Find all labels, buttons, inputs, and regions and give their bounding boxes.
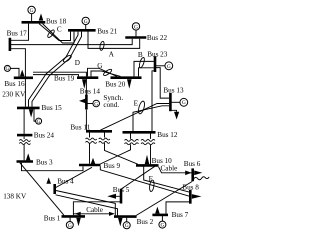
generator lead bus 1 (69, 218, 71, 222)
generator G at bus 21 (82, 17, 89, 24)
load arrow bus 9 (91, 158, 96, 164)
bus 6 bar (191, 168, 194, 181)
load arrow bus 10 (145, 155, 150, 165)
svg-text:G: G (94, 101, 98, 107)
wire 20-23 circuit 1 (134, 61, 154, 76)
wire 11-14 (85, 110, 87, 130)
load arrow bus 3 (26, 153, 31, 160)
svg-text:Bus 17: Bus 17 (7, 29, 28, 37)
svg-text:A: A (109, 51, 115, 59)
svg-text:F: F (149, 175, 153, 183)
bus 11 bar (86, 130, 112, 133)
svg-text:Bus 11: Bus 11 (70, 124, 90, 132)
generator lead bus 21 (85, 24, 87, 29)
generator lead bus 15 (34, 109, 36, 121)
wire 9-11 transformer lead lower (89, 143, 91, 164)
load arrow bus 19 (82, 79, 87, 89)
wire 12-23 (152, 71, 155, 131)
bus 12 bar (123, 131, 156, 134)
wire 8-10 (144, 166, 190, 192)
wire 1-3 (20, 163, 64, 216)
generator G at bus 23 (165, 62, 173, 70)
wire 1-5 (73, 202, 120, 215)
generator G at bus 2 (123, 222, 130, 229)
bus 3 bar (17, 160, 34, 163)
wire 15-21 circuit 2 (32, 32, 82, 107)
svg-text:Bus 22: Bus 22 (147, 34, 168, 42)
bus 14 bar (85, 95, 88, 110)
svg-text:G: G (182, 100, 186, 106)
svg-text:G: G (30, 8, 34, 14)
wire 9-11 transformer lead upper (89, 133, 91, 138)
svg-text:cond.: cond. (103, 101, 119, 109)
bus 2 bar (114, 215, 137, 218)
generator lead bus 2 (126, 218, 128, 222)
wire 5-10 (121, 166, 155, 189)
wire 10-12 transformer lead lower (150, 144, 152, 164)
transformer 10-12 winding (141, 139, 155, 141)
generator G at bus 22 (132, 23, 139, 30)
load arrow bus 15 (29, 109, 34, 117)
svg-text:Bus 23: Bus 23 (147, 50, 168, 58)
bus 18 bar (22, 21, 46, 24)
load arrow bus 20 (127, 79, 132, 89)
corridor marker ellipse F (149, 180, 155, 192)
corridor marker ellipse E (137, 100, 145, 114)
load arrow bus 8 (192, 194, 202, 199)
generator lead bus 16 (10, 68, 19, 76)
wire 10-11 transformer lead lower diagonal (105, 143, 138, 164)
load arrow bus 16 (20, 70, 25, 77)
svg-text:G: G (134, 24, 138, 30)
svg-text:Bus 15: Bus 15 (42, 104, 63, 112)
synchronous condenser G at bus 14 (93, 100, 100, 107)
svg-text:G: G (97, 62, 102, 70)
cable 1-2 right arrowhead (109, 212, 115, 216)
reactor squiggle at bus 6 (194, 177, 210, 180)
wire bus4-bus2 second segment (56, 195, 118, 216)
corridor marker ellipse C (47, 29, 56, 38)
bus 4 bar (53, 184, 56, 194)
load arrow bus 13 (174, 112, 179, 120)
load arrow bus 4 (46, 177, 51, 183)
wire 2-4 (56, 191, 116, 216)
wire 18-21 circuit 1 (39, 24, 71, 41)
wire 19-20 circuit 1 (88, 68, 118, 76)
load arrow bus 2 (118, 218, 123, 227)
wire 7-8 (166, 202, 190, 214)
wire 13-23 (155, 68, 169, 99)
svg-text:Bus 18: Bus 18 (46, 18, 67, 26)
bus 5 bar (120, 189, 123, 204)
wire 16-19 (33, 75, 79, 77)
generator lead synch cond bus 14 (86, 103, 93, 105)
svg-text:Bus 12: Bus 12 (157, 131, 178, 139)
transformer 10-11 winding (99, 138, 110, 140)
generator lead bus 22 (135, 30, 137, 37)
corridor marker ellipse A (99, 41, 105, 51)
generator G at bus 13 (180, 98, 188, 106)
bus 20 bar (111, 76, 142, 79)
transformer 9-11 winding (86, 138, 97, 140)
bus 23 bar (154, 56, 157, 72)
wire 20-23 circuit 2 (139, 68, 154, 77)
wire 17-22 (11, 39, 132, 45)
svg-text:G: G (37, 119, 41, 125)
wire 14-16 (33, 72, 86, 94)
bus 1 bar (62, 215, 86, 218)
wire 9-12 transformer lead lower diagonal (100, 144, 130, 164)
load arrow bus 6 (194, 171, 202, 176)
generator lead bus 18 (31, 14, 33, 22)
cable 6-10 arrowhead (185, 171, 191, 176)
svg-text:230 KV: 230 KV (2, 91, 26, 99)
svg-text:Cable: Cable (86, 206, 103, 214)
wire 10-11 transformer lead upper (104, 133, 106, 138)
wire 2-6 (136, 181, 192, 215)
svg-text:Bus 2: Bus 2 (137, 218, 154, 226)
bus 13 bar (169, 93, 172, 111)
wire transformer to bus 3 (23, 144, 25, 160)
svg-text:G: G (167, 64, 171, 70)
bus 19 bar (77, 76, 98, 79)
wire 8-9 (100, 166, 189, 196)
svg-text:Bus 13: Bus 13 (163, 87, 184, 95)
bus 16 bar (14, 77, 33, 80)
transformer 9-12 winding (125, 139, 139, 141)
bus 21 bar (68, 29, 96, 32)
wire 17-18 (11, 24, 29, 41)
svg-text:Bus 6: Bus 6 (184, 160, 201, 168)
bus 7 bar (152, 214, 168, 217)
load arrow bus 18 (39, 13, 44, 20)
wire 3-9 (22, 163, 84, 171)
svg-text:Bus 1: Bus 1 (44, 214, 61, 222)
svg-text:G: G (68, 223, 72, 229)
wire 21-22 (88, 32, 140, 49)
corridor marker ellipse G (103, 68, 113, 76)
svg-text:Bus 3: Bus 3 (36, 159, 53, 167)
svg-text:Bus 9: Bus 9 (104, 162, 121, 170)
bus 8 bar (189, 190, 192, 204)
load arrow bus 5 (107, 194, 116, 199)
transformer 3-24 winding (19, 140, 30, 142)
generator G at bus 18 (28, 6, 35, 13)
wire 15-21 circuit 1 (29, 32, 79, 107)
wire 12-13 (133, 106, 169, 131)
bus 24 bar (17, 134, 32, 137)
wire 15-24 (23, 109, 25, 134)
svg-text:G: G (160, 223, 164, 229)
wire 11-13 (101, 104, 170, 131)
wire 10-12 transformer lead upper (150, 134, 152, 139)
wire cable 6-10 (159, 167, 192, 173)
svg-text:C: C (57, 25, 62, 33)
svg-text:Bus 16: Bus 16 (4, 80, 25, 88)
bus 15 bar (17, 107, 40, 110)
svg-text:Bus 5: Bus 5 (113, 186, 130, 194)
wire 4-9 (56, 167, 92, 187)
generator G at bus 7 (159, 221, 166, 228)
wire cable 1-2 (73, 213, 113, 215)
svg-text:G: G (5, 66, 9, 72)
svg-text:E: E (134, 100, 139, 108)
corridor marker ellipse D (62, 54, 72, 63)
svg-text:138 KV: 138 KV (3, 192, 27, 200)
wire 18-21 circuit 2 (43, 24, 75, 43)
svg-text:G: G (125, 223, 129, 229)
generator lead bus 13 (170, 101, 180, 103)
svg-text:G: G (84, 19, 88, 25)
wire 19-20 circuit 2 (91, 71, 121, 76)
svg-text:Bus 20: Bus 20 (105, 81, 126, 89)
bus 17 bar (9, 38, 12, 51)
generator lead bus 23 (155, 65, 165, 67)
wire 15-16 (24, 79, 26, 107)
svg-text:Bus 8: Bus 8 (182, 183, 199, 191)
load arrow bus 7 (155, 207, 160, 214)
svg-text:Bus 24: Bus 24 (34, 132, 55, 140)
svg-text:Bus 14: Bus 14 (80, 88, 101, 96)
generator G at bus 1 (66, 222, 73, 229)
generator G at bus 16 (4, 65, 10, 71)
bus 10 bar (136, 164, 159, 167)
svg-text:D: D (75, 59, 80, 67)
svg-text:B: B (138, 51, 143, 59)
generator G at bus 15 (36, 118, 42, 124)
bus 22 bar (125, 36, 146, 39)
svg-text:Cable: Cable (161, 165, 178, 173)
wire 9-12 transformer lead upper (130, 134, 132, 139)
load arrow bus 1 (76, 218, 81, 227)
generator lead bus 7 (161, 216, 163, 221)
wire bus 13 load stub (170, 110, 176, 112)
svg-text:Bus 19: Bus 19 (54, 75, 75, 83)
cable 1-2 left arrowhead (75, 212, 81, 216)
bus 9 bar (79, 164, 101, 167)
wire 24 to transformer (23, 136, 25, 139)
svg-text:Bus 4: Bus 4 (57, 178, 74, 186)
corridor marker ellipse B (138, 57, 145, 68)
svg-text:Bus 7: Bus 7 (172, 211, 189, 219)
wire 16-17 (11, 49, 26, 77)
svg-text:Bus 21: Bus 21 (97, 27, 118, 35)
wire bus 5 load stem (116, 195, 120, 197)
load arrow bus 14 (79, 99, 85, 104)
